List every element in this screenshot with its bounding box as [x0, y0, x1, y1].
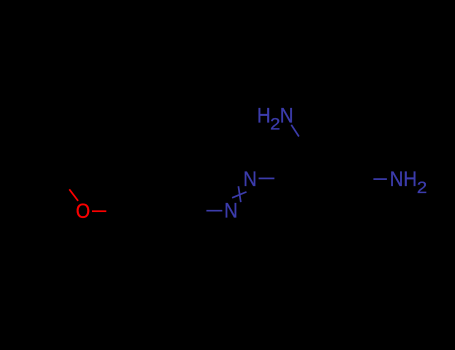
svg-text:N: N	[224, 200, 238, 223]
svg-text:H: H	[257, 104, 271, 127]
svg-text:N: N	[243, 168, 257, 191]
svg-text:O: O	[76, 200, 90, 223]
svg-text:2: 2	[417, 178, 427, 197]
svg-text:N: N	[280, 104, 294, 127]
svg-text:N: N	[390, 168, 404, 191]
svg-text:2: 2	[270, 115, 280, 134]
svg-text:H: H	[403, 168, 417, 191]
